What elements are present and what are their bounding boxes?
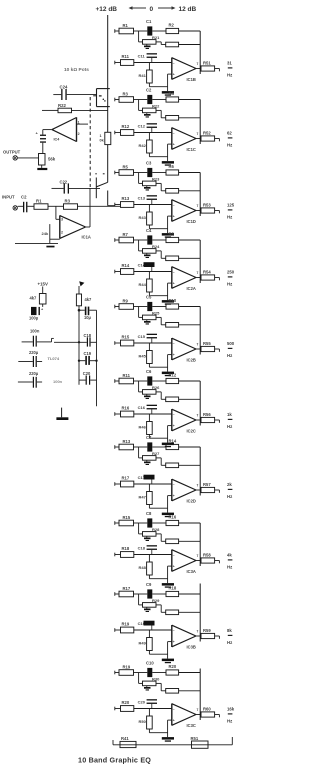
svg-text:R45: R45 xyxy=(139,354,147,359)
svg-text:1: 1 xyxy=(100,134,102,138)
wire band 5 + input xyxy=(168,354,172,356)
resistor R12 xyxy=(115,132,121,134)
wire U1A output riser xyxy=(86,226,90,228)
svg-text:C11: C11 xyxy=(138,54,146,59)
wire band 3 rail xyxy=(115,172,119,174)
svg-text:R20: R20 xyxy=(122,700,130,705)
svg-text:R4: R4 xyxy=(169,91,175,96)
svg-text:R11: R11 xyxy=(123,373,131,378)
svg-text:10 Band Graphic EQ: 10 Band Graphic EQ xyxy=(78,756,151,765)
svg-text:R19: R19 xyxy=(122,622,130,627)
wire band 4 feedback vertical xyxy=(199,240,201,283)
ground band 2 mini xyxy=(146,113,148,114)
svg-text:C8: C8 xyxy=(146,511,152,516)
node pot2 element xyxy=(95,178,97,199)
wire supply right rail xyxy=(78,306,80,385)
resistor R17 xyxy=(115,483,121,485)
wire band 5 row2 xyxy=(134,342,172,344)
wire band 8 row2 xyxy=(134,554,172,556)
svg-text:INPUT: INPUT xyxy=(2,194,15,199)
svg-text:C1: C1 xyxy=(146,19,152,24)
resistor R53 output xyxy=(196,210,201,212)
wire band 6 feedback vertical xyxy=(199,381,201,426)
svg-text:R14: R14 xyxy=(169,438,177,443)
wire band 9 + input xyxy=(168,641,172,643)
svg-text:2: 2 xyxy=(61,231,63,235)
svg-text:+15V: +15V xyxy=(38,281,48,286)
wire band 8 feedback vertical xyxy=(199,523,201,566)
band 8 rail left tick xyxy=(114,521,116,525)
svg-text:R47: R47 xyxy=(139,495,147,500)
svg-text:250: 250 xyxy=(227,270,235,275)
svg-text:C4: C4 xyxy=(146,228,152,233)
resistor R20 xyxy=(115,708,121,710)
wire band 7 rail xyxy=(115,446,119,448)
svg-text:C7: C7 xyxy=(146,435,152,440)
svg-text:R1: R1 xyxy=(123,23,129,28)
svg-text:R43: R43 xyxy=(139,215,147,220)
svg-text:R3: R3 xyxy=(123,91,129,96)
svg-text:−: − xyxy=(173,204,175,208)
node band 4 rail junction xyxy=(138,240,140,251)
svg-text:−: − xyxy=(173,483,175,487)
svg-text:R1: R1 xyxy=(36,198,42,203)
svg-text:R13: R13 xyxy=(122,196,130,201)
svg-text:+: + xyxy=(173,282,175,286)
node band 8 rail junction xyxy=(138,523,140,534)
svg-text:4k7: 4k7 xyxy=(30,296,38,301)
resistor R52 output xyxy=(196,138,201,140)
band 9 row2 left tick xyxy=(114,628,116,632)
svg-text:R17: R17 xyxy=(122,476,130,481)
svg-text:Hz: Hz xyxy=(227,73,232,78)
svg-text:C5: C5 xyxy=(146,295,152,300)
resistor R58 output xyxy=(196,560,201,562)
resistor R1 input xyxy=(27,205,34,207)
wire band 7 feedback vertical xyxy=(199,447,201,496)
ground band 5 mini xyxy=(146,320,148,321)
svg-text:R49: R49 xyxy=(139,641,147,646)
svg-text:R53: R53 xyxy=(203,203,211,208)
svg-text:+: + xyxy=(173,215,175,219)
wire U1A + input xyxy=(56,218,60,220)
op-amp IC2A xyxy=(171,267,173,289)
svg-text:C3: C3 xyxy=(146,161,152,166)
svg-text:−: − xyxy=(173,271,175,275)
svg-text:31: 31 xyxy=(227,61,232,66)
wire output jack xyxy=(18,157,39,159)
svg-text:−: − xyxy=(173,342,175,346)
resistor R45 on bus xyxy=(105,132,111,144)
ground band 3 xyxy=(162,233,174,236)
band 5 rail left tick xyxy=(114,305,116,309)
band 7 row2 left tick xyxy=(114,482,116,486)
svg-text:Hz: Hz xyxy=(227,719,232,724)
svg-text:−: − xyxy=(173,132,175,136)
svg-text:7: 7 xyxy=(197,413,199,417)
capacitor C2 input xyxy=(23,202,24,213)
svg-text:R7: R7 xyxy=(123,232,129,237)
wire band 8 + input xyxy=(168,565,172,567)
svg-text:R3: R3 xyxy=(65,198,71,203)
ground band 8 mini xyxy=(146,536,148,537)
svg-text:IC1A: IC1A xyxy=(82,235,91,240)
wire op-amp U4 + input xyxy=(77,123,89,125)
svg-text:R41: R41 xyxy=(139,73,147,78)
svg-text:3: 3 xyxy=(61,218,63,222)
svg-text:+: + xyxy=(173,143,175,147)
wire U4 output xyxy=(43,129,52,131)
svg-text:R5: R5 xyxy=(123,164,129,169)
ground band 1 mini xyxy=(146,44,148,45)
svg-text:100n: 100n xyxy=(53,379,63,384)
ground band 10 xyxy=(162,737,174,740)
wire tap to + input xyxy=(55,206,57,219)
ground input stage xyxy=(15,242,58,244)
band 8 row2 left tick xyxy=(114,553,116,557)
svg-text:−: − xyxy=(173,708,175,712)
wire band 7 row2 xyxy=(134,483,172,485)
band 1 row2 left tick xyxy=(114,61,116,65)
legend arrow left xyxy=(130,7,146,9)
svg-text:C19: C19 xyxy=(84,351,92,356)
wire band 6 rail xyxy=(115,380,119,382)
wire band 7 + input xyxy=(168,495,172,497)
band 5 row2 left tick xyxy=(114,341,116,345)
svg-text:R56: R56 xyxy=(203,412,211,417)
wire band 1 feedback vertical xyxy=(199,31,201,74)
svg-text:R20: R20 xyxy=(169,664,177,669)
svg-text:Hz: Hz xyxy=(227,494,232,499)
resistor R40 xyxy=(160,683,162,690)
svg-text:−: − xyxy=(173,554,175,558)
svg-text:C16: C16 xyxy=(138,405,146,410)
potentiometer VR1 xyxy=(96,89,98,107)
node supply junction xyxy=(78,309,81,312)
svg-text:C9: C9 xyxy=(146,582,152,587)
svg-text:4k: 4k xyxy=(227,553,232,558)
svg-text:R18: R18 xyxy=(169,585,177,590)
svg-text:C6: C6 xyxy=(146,369,152,374)
svg-text:C20: C20 xyxy=(138,700,146,705)
svg-text:100n: 100n xyxy=(30,328,40,333)
wire band 1 + input xyxy=(168,73,172,75)
resistor R39 xyxy=(160,605,162,612)
svg-text:2k: 2k xyxy=(227,482,232,487)
resistor R44 supply right xyxy=(76,294,81,306)
svg-text:+: + xyxy=(173,719,175,723)
svg-text:125: 125 xyxy=(227,203,235,208)
wire band 6 row2 xyxy=(134,413,172,415)
svg-text:IC3A: IC3A xyxy=(187,569,196,574)
svg-text:IC3B: IC3B xyxy=(187,644,196,649)
wire band 3 + input xyxy=(168,215,172,217)
band 10 rail left tick xyxy=(114,671,116,675)
wire band 2 row2 xyxy=(134,132,172,134)
svg-text:Hz: Hz xyxy=(227,143,232,148)
dashed gang line xyxy=(89,97,91,187)
svg-text:Hz: Hz xyxy=(227,424,232,429)
svg-text:R58: R58 xyxy=(203,553,211,558)
svg-text:R59: R59 xyxy=(203,628,211,633)
node band 7 rail junction xyxy=(138,447,140,458)
svg-text:IC2B: IC2B xyxy=(187,357,196,362)
resistor R23 to ground xyxy=(39,154,46,166)
ground band 1 xyxy=(162,91,174,94)
svg-text:R2: R2 xyxy=(169,22,175,27)
wire band 3 feedback vertical xyxy=(199,173,201,217)
svg-text:C13: C13 xyxy=(138,196,146,201)
svg-text:R22: R22 xyxy=(58,103,66,108)
svg-text:R12: R12 xyxy=(122,124,130,129)
resistor R35 xyxy=(160,317,162,324)
supply arrow Vcc xyxy=(79,281,84,286)
wire input row to bus xyxy=(78,205,121,207)
op-amp IC1B xyxy=(171,58,173,80)
band 6 row2 left tick xyxy=(114,412,116,416)
op-amp IC1D xyxy=(171,200,173,222)
svg-text:C20: C20 xyxy=(83,371,91,376)
wire band 9 feedback vertical xyxy=(199,584,201,642)
svg-text:+: + xyxy=(173,73,175,77)
node band 6 rail junction xyxy=(138,381,140,392)
wire bus below R45 xyxy=(107,145,109,183)
resistor R19 xyxy=(115,629,121,631)
resistor R16 xyxy=(115,413,121,415)
node band 2 rail junction xyxy=(138,100,140,111)
resistor R59 output xyxy=(196,635,201,637)
svg-text:100µ: 100µ xyxy=(29,315,39,320)
svg-text:IC1D: IC1D xyxy=(187,219,196,224)
svg-text:7: 7 xyxy=(197,271,199,275)
resistor R3 input xyxy=(48,205,64,207)
svg-text:TL074: TL074 xyxy=(48,356,60,361)
op-amp IC1C xyxy=(171,128,173,150)
svg-text:7: 7 xyxy=(197,132,199,136)
ground band 4 mini xyxy=(146,253,148,254)
op-amp IC2D xyxy=(171,479,173,501)
svg-text:Hz: Hz xyxy=(227,565,232,570)
wire band 9 row2 xyxy=(134,629,172,631)
svg-text:7: 7 xyxy=(197,708,199,712)
svg-text:R18: R18 xyxy=(122,546,130,551)
svg-text:OUTPUT: OUTPUT xyxy=(3,150,21,155)
ground band 7 xyxy=(162,513,174,516)
svg-text:10 kΩ Pots: 10 kΩ Pots xyxy=(64,67,89,73)
svg-text:7: 7 xyxy=(197,483,199,487)
wire supply right stub xyxy=(78,286,80,294)
svg-text:2: 2 xyxy=(78,132,80,136)
svg-text:R9: R9 xyxy=(123,298,129,303)
op-amp IC3C xyxy=(171,704,173,726)
svg-text:12 dB: 12 dB xyxy=(179,6,197,13)
svg-text:R48: R48 xyxy=(139,565,147,570)
resistor R55 output xyxy=(196,348,201,350)
svg-text:500: 500 xyxy=(227,341,235,346)
svg-text:IC2A: IC2A xyxy=(187,286,196,291)
svg-text:1k: 1k xyxy=(227,412,232,417)
resistor R38 xyxy=(160,534,162,541)
resistor R18 xyxy=(115,554,121,556)
ground band 10 mini xyxy=(146,686,148,687)
svg-text:R50: R50 xyxy=(139,719,147,724)
band 2 row2 left tick xyxy=(114,131,116,135)
svg-text:C18: C18 xyxy=(138,546,146,551)
svg-text:R41: R41 xyxy=(121,736,129,741)
wire bottom return xyxy=(113,744,232,746)
ground band 7 mini xyxy=(146,460,148,461)
svg-text:IC1B: IC1B xyxy=(187,77,196,82)
ground band 8 xyxy=(162,583,174,586)
wire band 10 row2 xyxy=(134,708,172,710)
svg-text:−: − xyxy=(173,62,175,66)
svg-text:R55: R55 xyxy=(203,341,211,346)
svg-text:R15: R15 xyxy=(123,515,131,520)
node band 9 rail junction xyxy=(138,594,140,605)
op-amp IC3A xyxy=(171,550,173,572)
wire bus lower segment xyxy=(107,191,109,206)
svg-text:R19: R19 xyxy=(123,664,131,669)
resistor R51 output xyxy=(196,68,201,70)
capacitor C29 10u electrolytic xyxy=(79,309,85,311)
resistor R37 xyxy=(160,458,162,465)
wire band 5 rail xyxy=(115,306,119,308)
svg-text:C2: C2 xyxy=(146,88,152,93)
svg-text:C18: C18 xyxy=(84,333,92,338)
svg-text:Hz: Hz xyxy=(227,282,232,287)
ground band 4 xyxy=(162,300,174,303)
wire band 2 + input xyxy=(168,143,172,145)
ground band 2 xyxy=(162,161,174,164)
wire band 4 row2 xyxy=(134,271,172,273)
svg-text:+: + xyxy=(173,353,175,357)
svg-text:R51: R51 xyxy=(203,61,211,66)
svg-text:10µ: 10µ xyxy=(84,315,92,320)
wire band 1 rail xyxy=(115,30,119,32)
wire bus jog diagonal xyxy=(96,182,107,187)
svg-text:4k7: 4k7 xyxy=(85,297,93,302)
wire vref rail xyxy=(96,310,98,406)
wire feedback horizontal xyxy=(52,187,64,189)
wire band 9 rail xyxy=(115,593,119,595)
connector J1 input xyxy=(13,206,17,210)
svg-text:R11: R11 xyxy=(122,54,130,59)
svg-text:C10: C10 xyxy=(146,661,154,666)
band 2 rail left tick xyxy=(114,98,116,102)
svg-text:220µ: 220µ xyxy=(29,371,39,376)
svg-text:Hz: Hz xyxy=(227,353,232,358)
band 9 rail left tick xyxy=(114,592,116,596)
svg-text:24k: 24k xyxy=(42,231,49,236)
ground band 5 xyxy=(162,372,174,375)
node band 1 rail junction xyxy=(138,31,140,42)
wire input to cap xyxy=(18,205,23,207)
wire U1A - input network xyxy=(50,238,60,240)
svg-text:7: 7 xyxy=(197,62,199,66)
connector J2 output xyxy=(13,156,17,160)
band 10 row2 left tick xyxy=(114,707,116,711)
wire band 8 rail xyxy=(115,522,119,524)
resistor R14 xyxy=(115,271,121,273)
svg-text:220µ: 220µ xyxy=(29,350,39,355)
svg-text:+12 dB: +12 dB xyxy=(96,6,118,13)
svg-text:R12: R12 xyxy=(169,372,177,377)
ground band 6 xyxy=(162,443,174,446)
svg-text:+: + xyxy=(173,424,175,428)
op-amp IC3B xyxy=(171,625,173,647)
svg-text:7: 7 xyxy=(197,629,199,633)
svg-text:+: + xyxy=(173,640,175,644)
svg-text:8k: 8k xyxy=(227,628,232,633)
svg-text:IC2C: IC2C xyxy=(187,428,196,433)
svg-text:R8: R8 xyxy=(169,231,175,236)
resistor R33 xyxy=(160,183,162,190)
wire band 2 feedback vertical xyxy=(199,100,201,145)
svg-text:R44: R44 xyxy=(139,282,147,287)
svg-text:IC1C: IC1C xyxy=(187,147,196,152)
svg-text:−: − xyxy=(173,629,175,633)
svg-text:7: 7 xyxy=(197,342,199,346)
band 6 rail left tick xyxy=(114,379,116,383)
svg-text:56k: 56k xyxy=(48,156,56,161)
svg-text:R16: R16 xyxy=(122,406,130,411)
svg-text:R46: R46 xyxy=(139,425,147,430)
svg-text:7: 7 xyxy=(197,204,199,208)
wire band 10 + input xyxy=(168,719,172,721)
svg-text:62: 62 xyxy=(227,131,232,136)
band 7 rail left tick xyxy=(114,445,116,449)
svg-text:−: − xyxy=(173,413,175,417)
svg-text:R51: R51 xyxy=(191,736,199,741)
node band 10 rail junction xyxy=(138,673,140,684)
ground supply xyxy=(61,408,63,418)
capacitor C25 electrolytic left xyxy=(31,307,37,315)
svg-text:16k: 16k xyxy=(227,707,235,712)
svg-text:R52: R52 xyxy=(203,131,211,136)
svg-text:IC3C: IC3C xyxy=(187,723,196,728)
wire band 5 feedback vertical xyxy=(199,307,201,355)
svg-text:R60: R60 xyxy=(203,707,211,712)
op-amp IC2C xyxy=(171,409,173,431)
op-amp U4 output buffer xyxy=(76,117,78,141)
node band 5 rail junction xyxy=(138,307,140,318)
resistor R32 xyxy=(160,110,162,117)
resistor R31 xyxy=(160,42,162,45)
svg-text:C12: C12 xyxy=(138,124,146,129)
svg-text:C24: C24 xyxy=(60,84,68,89)
svg-text:R42: R42 xyxy=(139,143,147,148)
resistor R34 xyxy=(160,251,162,258)
svg-text:R15: R15 xyxy=(122,335,130,340)
svg-text:C15: C15 xyxy=(138,334,146,339)
resistor R56 output xyxy=(196,419,201,421)
band 4 rail left tick xyxy=(114,238,116,242)
wire input bus vertical upper xyxy=(107,15,109,132)
svg-text:0: 0 xyxy=(150,6,154,13)
svg-text:IC4: IC4 xyxy=(54,138,61,142)
resistor R15 xyxy=(115,342,121,344)
legend arrow right xyxy=(158,7,174,9)
wire band 10 rail xyxy=(115,672,119,674)
svg-text:R6: R6 xyxy=(169,164,175,169)
svg-text:R57: R57 xyxy=(203,482,211,487)
wire band 1 row2 xyxy=(134,62,172,64)
svg-text:R10: R10 xyxy=(169,298,177,303)
op-amp IC2B xyxy=(171,338,173,360)
band 3 rail left tick xyxy=(114,171,116,175)
band 3 row2 left tick xyxy=(114,203,116,207)
wire band 10 feedback vertical xyxy=(199,669,201,721)
